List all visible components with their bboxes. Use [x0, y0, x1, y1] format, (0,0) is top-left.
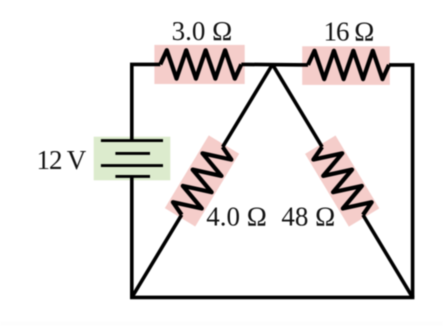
wire top-left corner and left side down to battery [132, 64, 161, 140]
wire upper-right diagonal from apex [273, 64, 323, 147]
wire upper-left diagonal from apex [223, 64, 273, 147]
resistor R3 zigzag 4.0 ohm [170, 140, 235, 222]
svg-text:16 Ω: 16 Ω [324, 16, 374, 46]
svg-text:4.0 Ω: 4.0 Ω [206, 202, 267, 232]
battery short plate 2 [115, 175, 150, 178]
battery long plate 1 [101, 139, 163, 142]
svg-text:3.0 Ω: 3.0 Ω [172, 16, 233, 46]
resistor R1 zigzag 3.0 ohm [160, 50, 241, 78]
resistor R2 zigzag 16 ohm [308, 51, 389, 79]
battery long plate 2 [101, 164, 163, 167]
wire top middle segment through apex node [241, 63, 308, 67]
wire bottom side [130, 296, 414, 300]
bottom gray strip [0, 322, 443, 326]
resistor R1 highlight box [154, 45, 244, 84]
wire lower left side below battery [130, 176, 134, 298]
battery short plate 1 [115, 152, 150, 155]
battery V1 highlight box [94, 137, 171, 181]
svg-text:12 V: 12 V [37, 145, 87, 175]
wire lower-right diagonal [363, 215, 413, 298]
svg-text:48 Ω: 48 Ω [281, 202, 335, 232]
resistor R3 highlight box [165, 135, 239, 226]
resistor R4 highlight box [305, 136, 379, 227]
resistor R2 highlight box [302, 46, 390, 85]
resistor R4 zigzag 48 ohm [310, 140, 375, 222]
wire lower-left diagonal [132, 215, 182, 298]
wire top-right corner and right side [389, 65, 413, 298]
